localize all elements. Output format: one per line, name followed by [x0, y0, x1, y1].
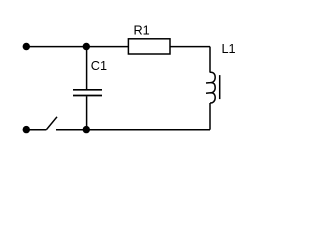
svg-text:C1: C1	[91, 59, 107, 73]
svg-text:R1: R1	[134, 23, 150, 37]
svg-text:L1: L1	[222, 42, 236, 56]
